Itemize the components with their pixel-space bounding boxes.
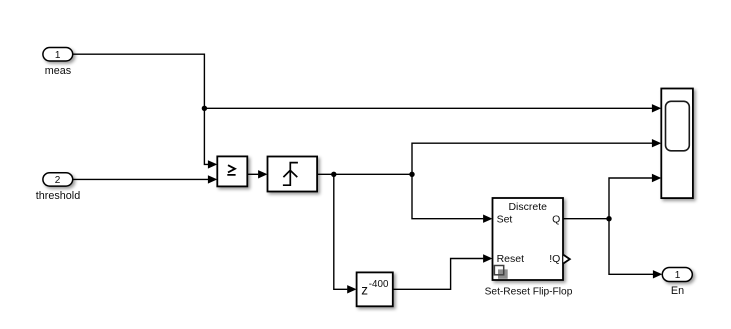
svg-text:z: z [361, 282, 368, 297]
junction A [331, 172, 336, 177]
wire delay to Reset [393, 254, 493, 289]
wire threshold to compare input 2 [73, 175, 218, 183]
svg-text:1: 1 [675, 270, 681, 281]
junction meas branch [202, 106, 207, 111]
junction B [409, 172, 414, 177]
relational operator U1 (>=) [217, 156, 247, 186]
wire junction B to scope input 2 [412, 139, 661, 174]
svg-text:En: En [671, 285, 684, 297]
svg-text:Set: Set [497, 214, 513, 226]
svg-text:Discrete: Discrete [508, 201, 547, 213]
scope block U4 [661, 89, 693, 199]
svg-text:Reset: Reset [497, 253, 525, 265]
wire junction A to delay [334, 174, 357, 293]
library link badge [494, 266, 507, 279]
scope screen [666, 101, 690, 151]
wire Q output [563, 218, 609, 220]
wire junction B to Set [412, 174, 493, 223]
outport 1 En [662, 268, 692, 282]
svg-text:Q: Q [552, 214, 560, 226]
value label z^-400 [361, 279, 389, 297]
inport 1 meas [43, 48, 73, 62]
wire meas to compare input 1 [73, 54, 218, 168]
hit crossing icon [283, 163, 298, 186]
flip-flop block U3 (Set-Reset Flip-Flop) [493, 198, 564, 280]
svg-text:-400: -400 [369, 279, 389, 290]
delay block Z1 (z^-400) [357, 272, 393, 306]
svg-text:Set-Reset Flip-Flop: Set-Reset Flip-Flop [485, 286, 573, 297]
svg-text:meas: meas [45, 65, 72, 77]
wire junction C to scope input 3 [609, 174, 661, 219]
svg-text:2: 2 [55, 175, 61, 186]
wire compare to hit crossing [247, 170, 267, 178]
junction C [606, 216, 611, 221]
wire meas branch to scope input 1 [204, 104, 661, 112]
hit crossing block U2 [268, 157, 318, 192]
symbol >= [227, 165, 235, 175]
unconnected output marker !Q [563, 255, 570, 264]
svg-text:!Q: !Q [549, 253, 560, 265]
svg-text:1: 1 [55, 50, 61, 61]
inport 2 threshold [43, 173, 73, 186]
wire junction C to En [609, 219, 662, 279]
wire hit crossing output [317, 173, 412, 175]
svg-text:threshold: threshold [36, 190, 80, 202]
